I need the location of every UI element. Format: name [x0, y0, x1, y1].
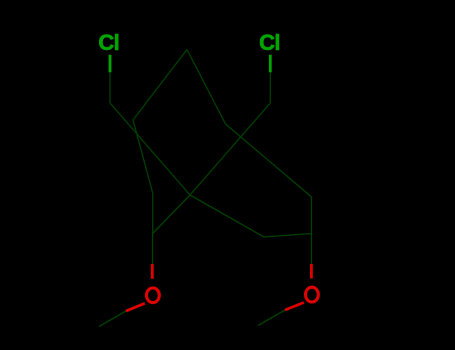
svg-text:Cl: Cl [98, 30, 119, 55]
wire: lower bridgehead to right lower vertex [190, 195, 264, 237]
wire: left ring upper side edge [133, 120, 153, 193]
wire: bridgehead apex to right ring [187, 50, 226, 125]
wire: left ring vertical edge [152, 193, 154, 234]
wire: bridgehead apex to left ring [133, 50, 187, 121]
wire: O-CH3 left red half [126, 303, 145, 311]
wire: Cl bond right bright half [269, 55, 272, 73]
wire: O-CH3 left dark half [99, 311, 126, 327]
wire: C-O left red half [151, 264, 154, 279]
wire: right Cl-carbon long diagonal to lower bridgehead [190, 103, 270, 195]
wire: O-CH3 right red half [285, 303, 304, 311]
wire: C-Cl bond right dark half [269, 72, 271, 103]
wire: C-O right red half [310, 264, 313, 279]
wire: right lower horizontal edge [264, 234, 312, 238]
wire: lower bridgehead to left C-O carbon [153, 195, 190, 234]
wire: O-CH3 right dark half [258, 310, 285, 326]
wire: right ring upper side edge [226, 124, 312, 197]
wire: Cl bond left bright half [109, 55, 112, 73]
wire: C-O left dark half [152, 234, 154, 265]
wire: C-Cl bond left dark half [109, 72, 111, 103]
wire: right ring vertical edge [311, 197, 313, 234]
atom label O right (drawn as ring) [306, 287, 319, 302]
wire: left Cl-carbon long diagonal to lower bridgehead [110, 103, 190, 195]
atom label O left (drawn as ring) [147, 288, 160, 303]
svg-text:Cl: Cl [259, 30, 280, 55]
wire: C-O right dark half [311, 234, 313, 265]
